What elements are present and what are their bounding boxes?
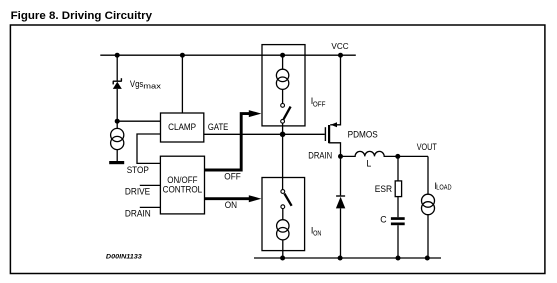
junction dot VCC-PDMOS: [338, 53, 343, 58]
wire DRAIN stub: [140, 206, 161, 208]
current source I1 left: [111, 121, 124, 149]
wire rail to IOFF source: [282, 55, 284, 69]
ground: [109, 161, 124, 164]
wire cs to switch: [282, 89, 284, 103]
svg-text:DRAIN: DRAIN: [308, 150, 332, 160]
wire rail to CLAMP top: [181, 55, 183, 113]
svg-text:Vgs: Vgs: [130, 79, 144, 89]
svg-text:ON: ON: [225, 200, 237, 210]
diode D1 freewheeling: [336, 156, 345, 258]
node DRAIN junction dot: [338, 154, 343, 159]
svg-text:OFF: OFF: [313, 102, 326, 109]
svg-text:L: L: [366, 158, 371, 168]
svg-text:Figure 8. Driving Circuitry: Figure 8. Driving Circuitry: [11, 10, 153, 22]
junction dot rail-CLAMP: [180, 53, 185, 58]
svg-text:C: C: [380, 214, 387, 224]
svg-text:DRIVE: DRIVE: [125, 186, 150, 196]
svg-text:max: max: [143, 81, 161, 90]
wire gate net to ION switch: [282, 134, 284, 189]
switch block ION: [262, 178, 321, 259]
svg-text:LOAD: LOAD: [436, 184, 451, 191]
current source ION: [277, 220, 289, 232]
transistor Q1 PDMOS: [325, 55, 377, 156]
wire VCC top rail: [100, 54, 355, 56]
channel bar: [328, 125, 330, 143]
wire switch to cs: [282, 209, 284, 220]
gate bar: [324, 127, 326, 141]
junction dot rail-ION: [280, 256, 285, 261]
svg-text:ON: ON: [313, 231, 321, 238]
svg-text:STOP: STOP: [127, 165, 149, 175]
current source ILOAD: [422, 156, 452, 258]
block U2 ON/OFF CONTROL: [160, 156, 204, 214]
svg-text:VOUT: VOUT: [417, 142, 438, 152]
junction dot L-ESR: [395, 154, 400, 159]
wire zener to node A: [116, 89, 118, 121]
svg-text:OFF: OFF: [224, 172, 241, 182]
inductor L: [341, 151, 398, 168]
svg-text:ESR: ESR: [375, 184, 392, 194]
wire STOP from CLAMP: [137, 134, 161, 163]
wire I1 to ground: [116, 150, 118, 161]
wire zener branch from rail: [116, 55, 118, 80]
svg-text:GATE: GATE: [208, 122, 229, 132]
wire bottom rail: [254, 257, 441, 259]
wire GATE net: [204, 133, 325, 135]
svg-text:DRAIN: DRAIN: [125, 209, 151, 219]
junction dot gate net: [280, 132, 286, 138]
junction dot rail-C: [396, 256, 401, 261]
wire switch to gate net: [282, 123, 284, 134]
switch SW1: [281, 104, 285, 108]
switch block IOFF: [262, 45, 325, 135]
switch SW2: [281, 190, 285, 194]
zener diode Vgsmax: [113, 78, 122, 89]
junction dot rail-diode: [338, 256, 343, 261]
current source IOFF: [276, 69, 288, 81]
svg-text:PDMOS: PDMOS: [348, 129, 378, 139]
wire node A to CLAMP left: [117, 120, 160, 122]
node A junction dot: [115, 119, 120, 124]
capacitor C: [380, 214, 404, 258]
svg-text:VCC: VCC: [331, 41, 348, 51]
wire ESR to C: [397, 197, 399, 218]
junction dot rail-IOFF: [280, 53, 285, 58]
svg-text:CONTROL: CONTROL: [163, 184, 203, 194]
wire VOUT: [398, 155, 428, 157]
svg-text:CLAMP: CLAMP: [168, 122, 196, 132]
wire OFF control line with arrow: [205, 110, 262, 182]
junction dot rail-ILOAD: [425, 256, 430, 261]
svg-text:D00IN1133: D00IN1133: [106, 254, 142, 261]
wire drain to node: [329, 143, 340, 157]
wire ON control line with arrow: [205, 195, 262, 210]
wire VCC to source: [336, 55, 341, 125]
block U1 CLAMP: [161, 113, 204, 142]
junction dot rail-zener: [115, 53, 120, 58]
resistor ESR: [375, 156, 402, 217]
wire DRIVE stub: [140, 184, 161, 186]
wire cs to bottom rail: [282, 240, 284, 258]
wire C to bottom rail: [397, 225, 399, 258]
